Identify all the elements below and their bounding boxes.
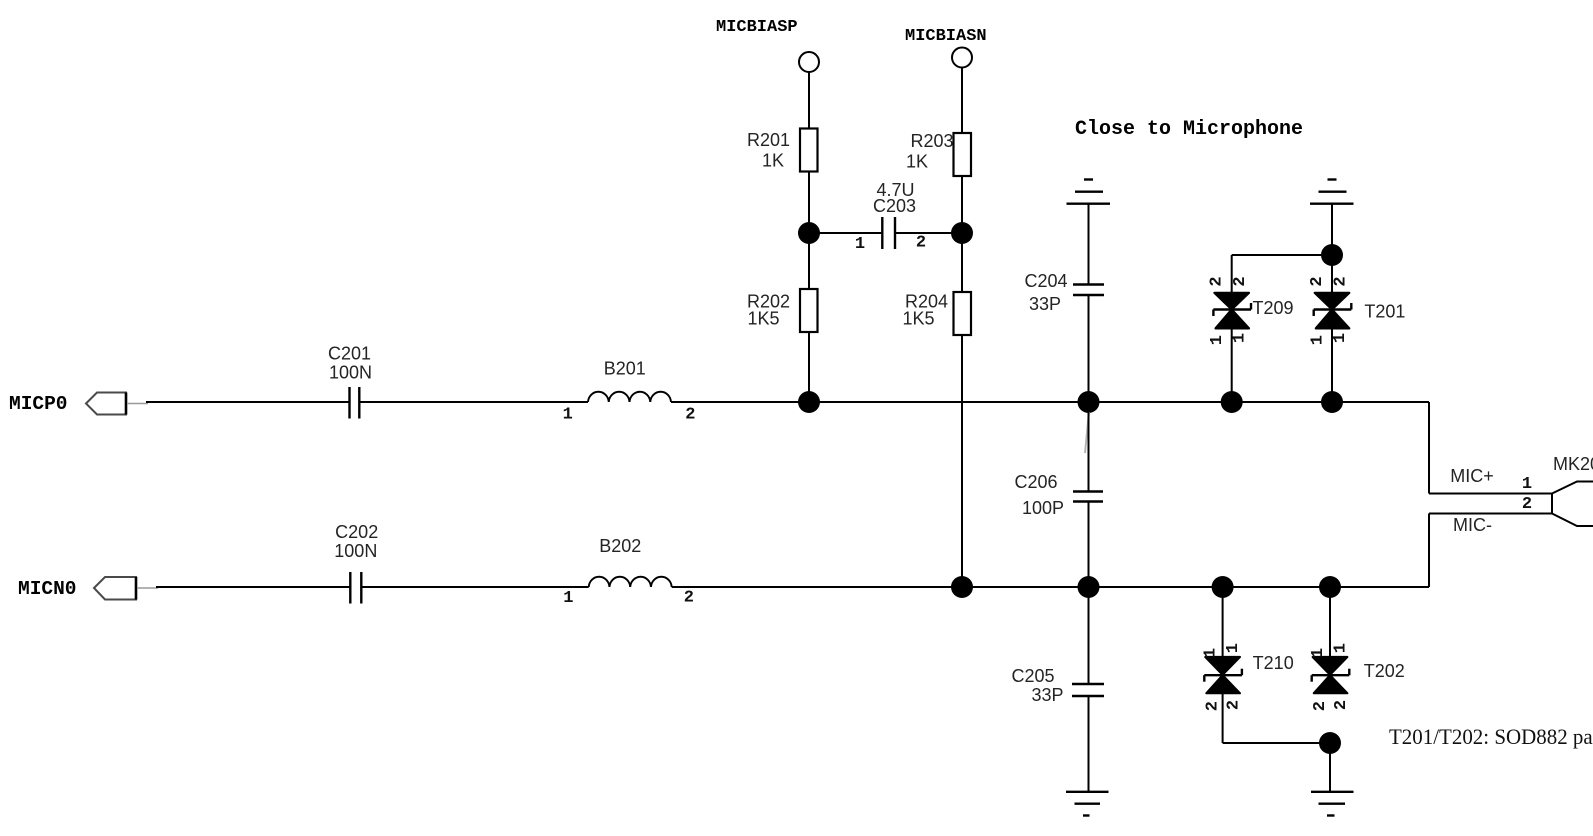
svg-text:1: 1 bbox=[1308, 335, 1327, 345]
wire MICP0 rail to MK20 pin1 bbox=[1429, 402, 1552, 494]
TVS diode T201 bbox=[1308, 276, 1406, 345]
svg-text:1: 1 bbox=[1331, 333, 1350, 343]
capacitor C206 bbox=[1014, 472, 1103, 518]
port label MICN0 bbox=[18, 578, 77, 600]
svg-text:1K5: 1K5 bbox=[902, 309, 934, 329]
power port MICBIASN bbox=[905, 27, 987, 68]
ground (inverted) above T201 bbox=[1310, 180, 1354, 204]
wire C203 to node B bbox=[895, 232, 962, 234]
pin 1 MK20 bbox=[1522, 475, 1532, 494]
svg-text:100N: 100N bbox=[334, 541, 377, 561]
svg-text:C205: C205 bbox=[1011, 666, 1054, 686]
svg-text:100N: 100N bbox=[329, 363, 372, 383]
svg-text:2: 2 bbox=[1311, 701, 1330, 711]
wire MICP0 rail right bbox=[671, 401, 1429, 403]
junction dot R204/MICN0 bbox=[951, 576, 973, 598]
svg-text:1: 1 bbox=[1231, 333, 1250, 343]
svg-text:1K5: 1K5 bbox=[747, 309, 779, 329]
junction dot T209/MICP0 bbox=[1221, 391, 1243, 413]
wire MICBIASN to R203 bbox=[961, 68, 963, 134]
TVS diode T202 bbox=[1309, 643, 1405, 711]
svg-text:MK201: MK201 bbox=[1553, 454, 1593, 474]
svg-text:R203: R203 bbox=[910, 131, 953, 151]
wire node A to C203 bbox=[809, 232, 882, 234]
net label MIC- bbox=[1453, 515, 1492, 535]
power port MICBIASP bbox=[716, 18, 819, 72]
capacitor C204 bbox=[1024, 271, 1104, 314]
resistor R202 bbox=[747, 289, 818, 332]
svg-text:T201/T202: SOD882 pac: T201/T202: SOD882 pac bbox=[1389, 724, 1593, 749]
svg-text:R201: R201 bbox=[747, 130, 790, 150]
svg-text:2: 2 bbox=[1208, 276, 1227, 286]
capacitor C203 bbox=[855, 180, 926, 254]
wire R202 to MICP0 rail bbox=[808, 332, 810, 402]
ground below T202 bbox=[1311, 792, 1354, 816]
wire T210 to bottom node D bbox=[1223, 693, 1330, 743]
junction dot R202/MICP0 bbox=[798, 391, 820, 413]
port label MICP0 bbox=[9, 393, 68, 415]
svg-text:33P: 33P bbox=[1029, 294, 1061, 314]
wire MICN0 rail to T210 bbox=[1222, 587, 1224, 658]
wire MICN0 rail to MK20 pin2 bbox=[1429, 514, 1552, 588]
wire MICN0 rail mid bbox=[361, 586, 588, 588]
connector symbol MICP0 bbox=[86, 393, 148, 415]
wire R204 down to MICN0 rail bbox=[961, 335, 963, 587]
wire MICP0 rail to C206 bbox=[1088, 402, 1090, 492]
connector symbol MICN0 bbox=[94, 577, 158, 600]
svg-text:2: 2 bbox=[916, 234, 926, 253]
junction dot T201/MICP0 bbox=[1321, 391, 1343, 413]
capacitor C201 bbox=[328, 344, 372, 419]
wire T201 to MICP0 rail bbox=[1331, 328, 1333, 402]
svg-text:1: 1 bbox=[1224, 643, 1243, 653]
svg-text:C206: C206 bbox=[1014, 472, 1057, 492]
svg-text:2: 2 bbox=[1332, 700, 1351, 710]
svg-text:C203: C203 bbox=[873, 196, 916, 216]
wire node C to T209 top bbox=[1232, 255, 1332, 293]
svg-text:1: 1 bbox=[1331, 643, 1350, 653]
svg-text:MIC+: MIC+ bbox=[1450, 466, 1494, 486]
wire MICP0 rail left bbox=[146, 401, 349, 403]
ground below C205 bbox=[1066, 792, 1109, 816]
resistor R204 bbox=[902, 292, 971, 336]
wire C205 to ground bbox=[1088, 696, 1090, 792]
wire T209 to MICP0 rail bbox=[1231, 328, 1233, 402]
svg-text:1: 1 bbox=[1522, 475, 1532, 494]
junction dot C206/MICN0 bbox=[1078, 576, 1100, 598]
wire node C to T201 bbox=[1331, 255, 1333, 293]
svg-text:T201: T201 bbox=[1364, 302, 1405, 322]
note Close to Microphone bbox=[1075, 118, 1303, 141]
wire R203 to node B bbox=[961, 176, 963, 233]
svg-text:1: 1 bbox=[1202, 648, 1221, 658]
svg-text:1: 1 bbox=[1208, 335, 1227, 345]
node B junction dot bbox=[951, 222, 973, 244]
svg-text:2: 2 bbox=[1204, 701, 1223, 711]
junction dot C204/MICP0 bbox=[1078, 391, 1100, 413]
inductor B201 bbox=[563, 359, 696, 425]
wire C204 to MICP0 rail bbox=[1088, 295, 1090, 402]
ground (inverted) above C204 bbox=[1067, 180, 1111, 204]
svg-text:2: 2 bbox=[1331, 276, 1350, 286]
svg-text:1: 1 bbox=[563, 406, 573, 425]
connector MK20 bbox=[1552, 454, 1593, 526]
svg-text:2: 2 bbox=[1231, 276, 1250, 286]
svg-text:2: 2 bbox=[1225, 700, 1244, 710]
junction dot T202/MICN0 bbox=[1319, 576, 1341, 598]
svg-text:1: 1 bbox=[855, 235, 865, 254]
wire node A to R202 bbox=[808, 233, 810, 290]
svg-text:B201: B201 bbox=[604, 359, 646, 379]
wire ground to node C bbox=[1331, 204, 1333, 255]
wire ground to C204 bbox=[1088, 204, 1090, 284]
capacitor C202 bbox=[334, 522, 378, 604]
svg-text:2: 2 bbox=[1522, 495, 1532, 514]
net label MIC+ bbox=[1450, 466, 1494, 486]
resistor R203 bbox=[906, 131, 971, 176]
svg-text:100P: 100P bbox=[1022, 498, 1064, 518]
node A junction dot bbox=[798, 222, 820, 244]
inductor B202 bbox=[563, 536, 694, 608]
svg-text:1K: 1K bbox=[762, 151, 784, 171]
scan artifact gray stroke bbox=[1085, 412, 1089, 453]
svg-text:T209: T209 bbox=[1252, 298, 1293, 318]
pin 2 MK20 bbox=[1522, 495, 1532, 514]
TVS diode T209 bbox=[1208, 276, 1294, 345]
wire node D to ground bbox=[1329, 743, 1331, 792]
wire C206 to MICN0 rail bbox=[1088, 502, 1090, 588]
svg-text:MICP0: MICP0 bbox=[9, 393, 68, 415]
node D junction dot bbox=[1319, 732, 1341, 754]
wire MICN0 rail left bbox=[156, 586, 350, 588]
svg-text:C204: C204 bbox=[1024, 271, 1067, 291]
svg-text:MIC-: MIC- bbox=[1453, 515, 1492, 535]
svg-text:C202: C202 bbox=[335, 522, 378, 542]
capacitor C205 bbox=[1011, 666, 1104, 705]
svg-text:1: 1 bbox=[1309, 648, 1328, 658]
svg-text:1: 1 bbox=[563, 589, 573, 608]
wire MICN0 rail right bbox=[672, 586, 1429, 588]
svg-text:T210: T210 bbox=[1253, 653, 1294, 673]
wire node B to R204 bbox=[961, 233, 963, 293]
svg-text:T202: T202 bbox=[1364, 661, 1405, 681]
wire MICP0 rail mid bbox=[359, 401, 588, 403]
wire MICN0 rail to C205 bbox=[1088, 587, 1090, 684]
junction dot T210/MICN0 bbox=[1212, 576, 1234, 598]
svg-text:2: 2 bbox=[684, 589, 694, 608]
svg-text:2: 2 bbox=[685, 406, 695, 425]
svg-text:1K: 1K bbox=[906, 152, 928, 172]
node C junction dot bbox=[1321, 244, 1343, 266]
note T201/T202 package bbox=[1389, 724, 1593, 749]
wire R201 to node A bbox=[808, 172, 810, 234]
wire MICBIASP to R201 bbox=[808, 73, 810, 130]
svg-text:33P: 33P bbox=[1031, 685, 1063, 705]
resistor R201 bbox=[747, 129, 818, 172]
TVS diode T210 bbox=[1202, 643, 1294, 711]
svg-text:MICN0: MICN0 bbox=[18, 578, 77, 600]
svg-text:C201: C201 bbox=[328, 344, 371, 364]
svg-text:2: 2 bbox=[1308, 276, 1327, 286]
svg-text:MICBIASN: MICBIASN bbox=[905, 27, 987, 46]
wire MICN0 rail to T202 bbox=[1329, 587, 1331, 658]
svg-text:MICBIASP: MICBIASP bbox=[716, 18, 798, 37]
svg-text:Close to Microphone: Close to Microphone bbox=[1075, 118, 1303, 141]
svg-text:B202: B202 bbox=[599, 536, 641, 556]
